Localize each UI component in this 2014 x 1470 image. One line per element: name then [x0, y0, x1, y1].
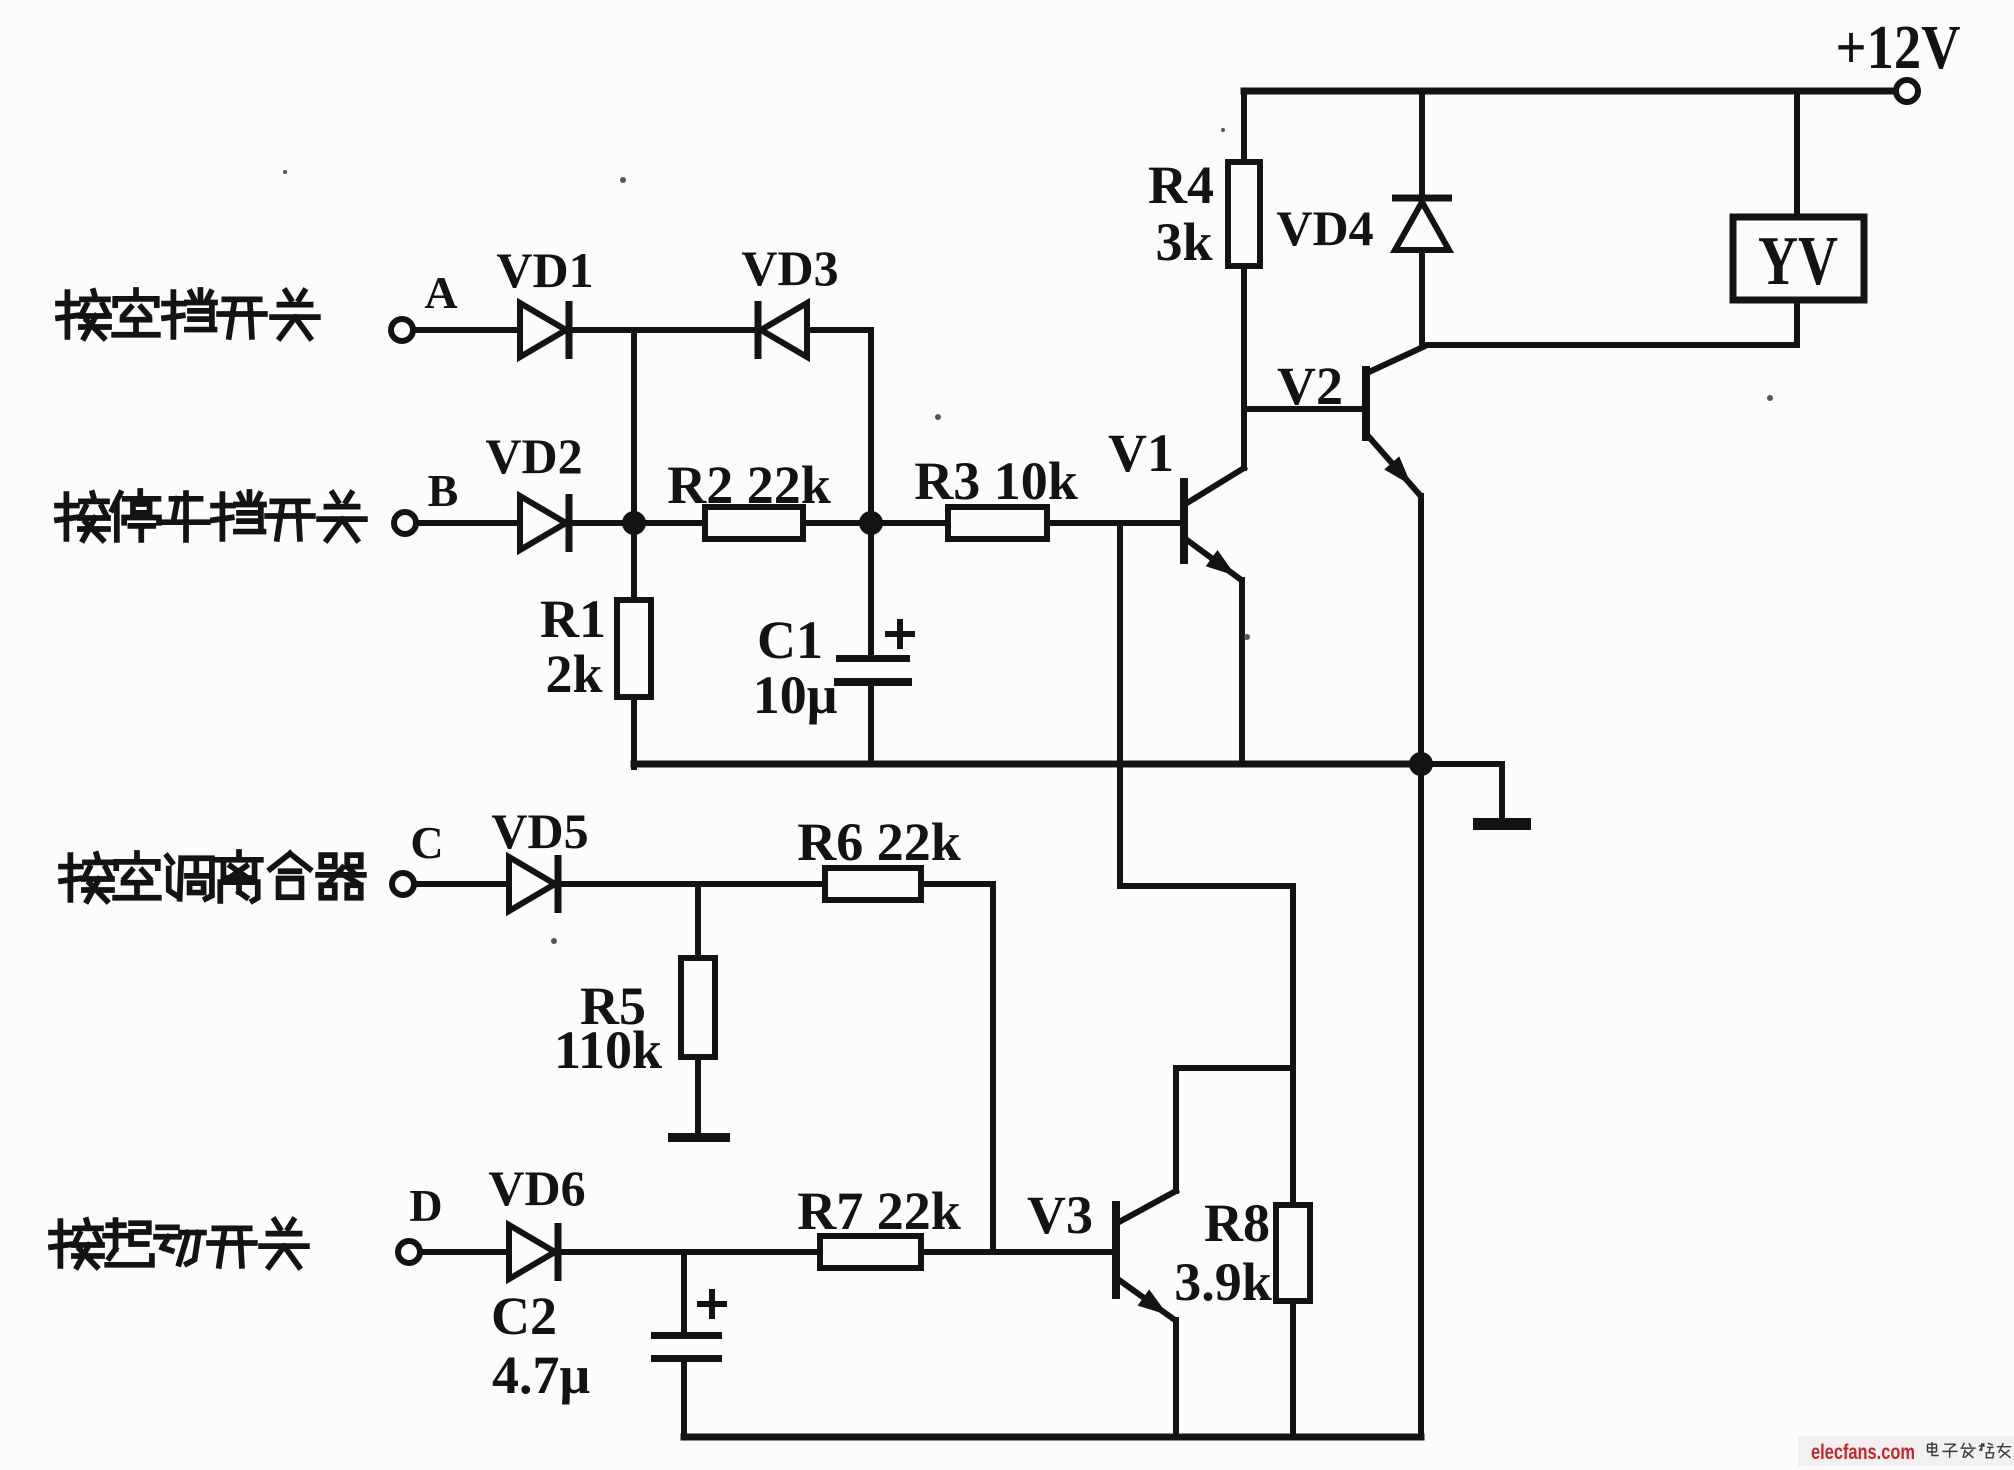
capacitor C2 [651, 1332, 722, 1339]
transistor V3 collector [1119, 1191, 1176, 1222]
junction main ground node [1409, 752, 1433, 776]
wire B terminal to VD2 [416, 520, 520, 526]
svg-text:V1: V1 [1108, 423, 1174, 483]
wire VD4/V2-collector to YV [1422, 342, 1797, 348]
resistor R4 [1228, 162, 1260, 266]
wire node B to R1 [631, 523, 637, 600]
diode VD1 [520, 303, 566, 357]
wire junction A-column down to node B [631, 330, 637, 523]
svg-text:C2: C2 [491, 1286, 557, 1346]
svg-text:VD2: VD2 [485, 428, 582, 484]
resistor R3 [948, 507, 1047, 539]
wire V1 emitter to ground bus [1239, 580, 1245, 764]
svg-text:YV: YV [1758, 223, 1838, 300]
resistor R1 [617, 600, 651, 697]
diode VD5 [509, 857, 555, 911]
ground symbol right [1473, 818, 1531, 830]
wire V3 collector link to R8 column [1176, 1065, 1293, 1071]
svg-text:R7 22k: R7 22k [797, 1181, 961, 1241]
node C terminal [392, 873, 414, 895]
wire C1 top [868, 523, 874, 656]
svg-text:C: C [410, 817, 443, 868]
wire R6 right corner down to row D [921, 884, 993, 1252]
svg-text:110k: 110k [554, 1020, 662, 1080]
wire R3 to V1 base [1047, 520, 1181, 526]
label B-cn [57, 493, 108, 540]
node +12V terminal [1896, 80, 1918, 102]
svg-text:A: A [424, 267, 457, 318]
wire ground stub [1421, 764, 1502, 818]
wire rail down to R4 [1241, 91, 1247, 162]
wire VD4 anode down [1419, 250, 1425, 345]
wire V3 emitter to bottom bus [1173, 1320, 1179, 1437]
wire VD1 to VD3 [574, 327, 758, 333]
resistor R2 [705, 507, 803, 539]
svg-text:D: D [409, 1180, 442, 1231]
wire C2 top [681, 1252, 687, 1333]
svg-text:C1: C1 [757, 610, 823, 670]
svg-text:VD6: VD6 [488, 1160, 585, 1216]
transistor V1 base bar [1180, 478, 1188, 564]
wire R2 to R3 [803, 520, 948, 526]
wire V2 base [1244, 406, 1363, 412]
wire VD5 to R6 [563, 881, 825, 887]
wire C terminal to VD5 [414, 881, 509, 887]
svg-text:R4: R4 [1148, 155, 1214, 215]
wire R7 to V3 base [921, 1249, 1112, 1255]
watermark background [1798, 1436, 2014, 1466]
svg-text:R1: R1 [540, 589, 606, 649]
wire C2 bottom to bottom bus [681, 1362, 687, 1437]
wire V2 emitter down / main ground column [1418, 496, 1424, 1437]
svg-text:3.9k: 3.9k [1174, 1252, 1272, 1312]
svg-text:3k: 3k [1155, 212, 1212, 272]
svg-text:B: B [428, 465, 459, 516]
diode VD2 [520, 496, 566, 550]
svg-text:10μ: 10μ [753, 665, 838, 725]
node A terminal [391, 319, 413, 341]
node B terminal [394, 512, 416, 534]
watermark 电子发烧友 [1928, 1442, 1939, 1456]
svg-text:VD4: VD4 [1276, 200, 1373, 256]
resistor R8 [1276, 1205, 1310, 1301]
scan specks (decorative, not labelled individually) [620, 177, 626, 183]
wire R4 to V1 collector / V2 base column [1241, 266, 1247, 468]
wire C1 bottom to ground bus [868, 686, 874, 764]
diode VD4 (cathode up) [1392, 195, 1452, 202]
diode VD3 (pointing left) [755, 301, 762, 359]
svg-text:elecfans.com: elecfans.com [1811, 1441, 1915, 1464]
wire A terminal to VD1 [413, 327, 520, 333]
wire +12V rail [1244, 88, 1896, 95]
wire corner down to node R2-right [868, 330, 874, 523]
solenoid valve YV box [1733, 217, 1864, 300]
label D-cn [51, 1220, 102, 1267]
junction node B column [622, 511, 646, 535]
wire link V1-base column down [1120, 523, 1293, 1205]
ground symbol R5 [668, 1133, 730, 1142]
svg-text:R8: R8 [1204, 1193, 1270, 1253]
wire rail down to YV [1794, 91, 1800, 217]
transistor V2 emitter [1369, 437, 1419, 494]
svg-text:V3: V3 [1027, 1185, 1093, 1245]
svg-text:V2: V2 [1277, 356, 1343, 416]
resistor R7 [820, 1236, 921, 1268]
resistor R6 [825, 868, 921, 900]
wire V3 collector up [1173, 1068, 1179, 1191]
diode VD6 [509, 1225, 555, 1279]
transistor V1 emitter [1187, 540, 1240, 579]
label A-cn [58, 291, 109, 338]
transistor V3 emitter [1119, 1280, 1172, 1318]
wire VD6 to R7 [563, 1249, 820, 1255]
svg-text:VD3: VD3 [741, 240, 838, 296]
svg-text:VD5: VD5 [491, 803, 588, 859]
C1 plus sign [888, 631, 912, 637]
node D terminal [398, 1241, 420, 1263]
svg-text:+12V: +12V [1836, 14, 1961, 82]
wire C node down to R5 [695, 884, 701, 958]
wire rail down to VD4 [1419, 91, 1425, 198]
transistor V1 collector [1187, 468, 1244, 503]
wire YV bottom [1794, 300, 1800, 345]
transistor V2 base bar [1362, 366, 1370, 441]
wire ground bus [634, 761, 1421, 768]
wire bottom ground bus [684, 1434, 1421, 1441]
svg-text:R6 22k: R6 22k [797, 812, 961, 872]
svg-text:R3 10k: R3 10k [914, 451, 1078, 511]
capacitor C1 [836, 655, 910, 662]
svg-text:4.7μ: 4.7μ [492, 1345, 590, 1405]
wire D terminal to VD6 [420, 1249, 509, 1255]
C2 plus sign [700, 1301, 724, 1307]
resistor R5 [681, 958, 715, 1057]
transistor V3 base bar [1112, 1201, 1120, 1299]
transistor V2 collector [1369, 347, 1423, 372]
junction node R2/C1/R3 [859, 511, 883, 535]
label C-cn [61, 854, 112, 901]
wire R8 bottom to bus [1290, 1301, 1296, 1437]
wire R5 to ground [695, 1057, 701, 1133]
svg-text:R2 22k: R2 22k [667, 455, 831, 515]
wire R1 to ground bus [631, 697, 637, 767]
wire VD2 to R2 [574, 520, 705, 526]
wire VD3 to corner [807, 327, 871, 333]
svg-text:2k: 2k [545, 644, 602, 704]
svg-text:VD1: VD1 [496, 242, 593, 298]
